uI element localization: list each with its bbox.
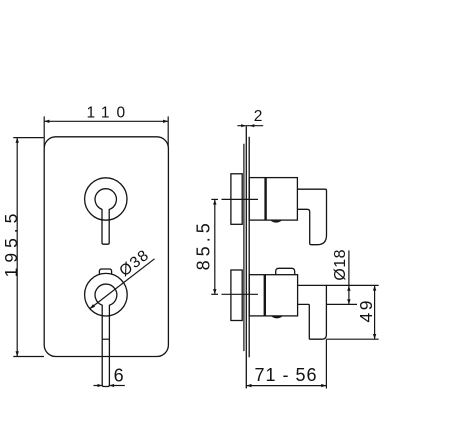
svg-text:85.5: 85.5 xyxy=(194,219,214,270)
top valve handle xyxy=(297,189,326,245)
svg-text:Ø18: Ø18 xyxy=(332,249,349,281)
top valve bottom nub xyxy=(271,221,282,223)
dim 110 arrow right xyxy=(163,120,168,123)
dim phi38 diagonal line xyxy=(89,259,154,309)
dim phi18 arrow down xyxy=(347,299,350,304)
svg-text:71 - 56: 71 - 56 xyxy=(254,365,317,385)
bottom valve cartridge divider xyxy=(264,275,266,316)
dim 195.5 arrow top xyxy=(16,138,19,143)
bottom valve body xyxy=(249,275,297,316)
top valve body xyxy=(249,178,297,221)
dim 110 arrow left xyxy=(44,120,49,123)
side plate left face with extensions xyxy=(245,126,247,388)
side back line xyxy=(243,144,245,351)
dim 6 line left xyxy=(94,385,103,387)
bottom valve bottom nub xyxy=(271,316,282,318)
dim 6 arrow right xyxy=(109,384,114,387)
top knob outer circle xyxy=(85,178,127,220)
bottom lever joint tick xyxy=(102,338,109,340)
dim 85.5 centerline top xyxy=(211,198,218,200)
bottom knob lever keyhole xyxy=(95,284,117,386)
dim 6 arrow left xyxy=(98,384,103,387)
dim 49 arrow bottom xyxy=(373,334,376,339)
dim 85.5 centerline bottom xyxy=(211,293,218,295)
dim 195.5 extension bottom (plate bottom prolonged) xyxy=(13,356,44,358)
top knob lever keyhole xyxy=(95,189,116,245)
svg-text:2: 2 xyxy=(254,108,263,125)
dim 71-56 arrow right xyxy=(321,384,326,387)
bottom valve top button xyxy=(276,268,295,274)
dim 49 line xyxy=(374,285,376,339)
dim 110 extension right xyxy=(167,116,169,147)
bottom valve handle xyxy=(298,285,327,339)
arm top edge extension xyxy=(326,284,378,286)
dim 85.5 arrow bottom xyxy=(213,289,216,294)
bottom knob top button xyxy=(99,269,111,274)
dim 110 extension left xyxy=(43,116,45,147)
svg-text:49: 49 xyxy=(356,298,376,322)
dim 85.5 line xyxy=(214,199,216,294)
dim 71-56 line xyxy=(246,385,326,387)
svg-text:6: 6 xyxy=(114,366,124,386)
dim phi18 line xyxy=(348,250,350,304)
dim phi18 arrow up xyxy=(347,286,350,291)
side plate right face xyxy=(248,137,250,357)
svg-text:110: 110 xyxy=(86,105,132,122)
dim 71-56 arrow left xyxy=(246,384,251,387)
dim 6 line right xyxy=(109,385,124,387)
dim 195.5 extension top xyxy=(13,137,43,139)
dim 49 bottom extension xyxy=(326,338,378,340)
dim 49 arrow top xyxy=(373,285,376,290)
dim 2 line xyxy=(237,125,263,127)
dim 195.5 arrow bottom xyxy=(16,351,19,356)
dim 2 arrow left xyxy=(241,124,246,127)
dim 2 arrow right xyxy=(250,124,255,127)
arm bottom edge extension xyxy=(326,303,357,305)
top valve flange xyxy=(231,174,242,225)
dim 110 line xyxy=(44,120,168,122)
svg-text:195.5: 195.5 xyxy=(1,209,21,278)
dim 85.5 arrow top xyxy=(213,199,216,204)
dim 71-56 right extension xyxy=(325,339,327,388)
dim 195.5 line xyxy=(16,138,18,357)
dim phi38 arrow lower-left xyxy=(89,304,95,309)
front plate xyxy=(44,137,168,357)
top valve cartridge divider xyxy=(264,178,266,221)
bottom valve flange xyxy=(231,270,242,321)
bottom knob outer circle xyxy=(85,273,128,316)
